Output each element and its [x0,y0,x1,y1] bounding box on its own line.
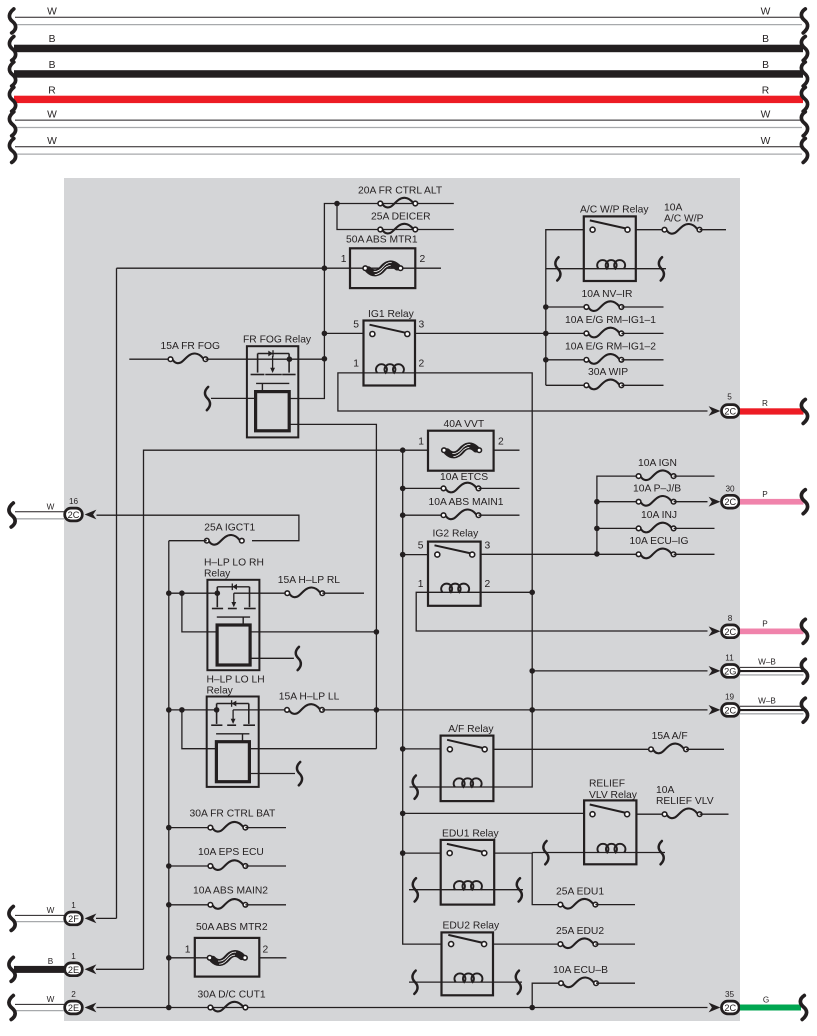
wire: IG2 pin1 to connector 8 [416,592,707,631]
svg-text:W: W [761,110,771,121]
wire: branch to 25A DEICER row [337,204,454,230]
junction [400,850,406,856]
wire break symbol [9,36,15,60]
svg-text:5: 5 [353,320,359,331]
connector 1 2E (left, B wire) [9,952,144,981]
wire break symbol [801,138,807,162]
svg-text:2C: 2C [724,497,736,507]
svg-text:1: 1 [418,436,424,447]
svg-text:19: 19 [725,693,735,702]
wire: EDU1 switch out to 25A EDU1 fuse [494,853,560,905]
relay FR FOG (solid state) [243,334,312,437]
svg-text:1: 1 [71,901,76,910]
wire: IG2 pin2 to bus x532 [481,591,533,593]
svg-text:B: B [49,60,56,71]
wire: FR FOG lower terminal to bus x376 [289,424,376,748]
wire break symbol [801,698,807,722]
svg-text:50A ABS MTR2: 50A ABS MTR2 [196,922,268,933]
wire W (top 1) [9,7,807,33]
wire: EDU2 switch out to 25A EDU2 fuse [493,943,560,945]
wire break symbol [659,257,664,280]
wire break symbol [801,9,807,33]
svg-text:RELIEF: RELIEF [589,779,625,790]
wire break symbol [801,490,807,514]
junction [166,590,172,596]
wire: RH coil right to bus x376 [250,631,376,633]
svg-text:2C: 2C [724,1003,736,1013]
wire break symbol [9,62,15,86]
svg-text:W: W [47,995,55,1004]
svg-text:2C: 2C [724,705,736,715]
svg-text:B: B [762,60,769,71]
junction [179,590,185,596]
wire break symbol [801,87,807,111]
wire: RELIEF coil left with break [532,852,584,854]
svg-text:FR FOG Relay: FR FOG Relay [243,334,312,345]
svg-text:2C: 2C [724,627,736,637]
wire: IG1 pin1 loop to connector 5 [338,373,708,411]
wire: bus x182 seg2 to LH coil [182,710,217,749]
svg-text:10A E/G RM–IG1–1: 10A E/G RM–IG1–1 [565,315,656,326]
wire: RELIEF coil right stub with break [636,852,665,854]
svg-text:50A ABS MTR1: 50A ABS MTR1 [346,234,418,245]
svg-text:2: 2 [485,579,491,590]
wire break symbol [9,9,15,33]
svg-text:B: B [48,957,54,966]
junction [215,590,221,596]
fuse 10A INJ [594,510,714,532]
wire: IGN fuse group bus x597 [597,476,639,554]
fuse 15A A/F [649,731,724,753]
wire break symbol [801,619,807,643]
svg-text:EDU1 Relay: EDU1 Relay [442,828,500,839]
wire: LL fuse to connector 19 [322,709,708,711]
wire: A/C coil left with break [546,268,584,270]
connector 8 2C (right, P wire) [709,614,808,643]
wire break symbol [801,399,807,423]
fuse 15A FR FOG [129,341,220,363]
wire break symbol [801,62,807,86]
fuse 10A E/G RM-IG1-1 [543,315,664,337]
fuse 10A RELIEF VLV [636,785,728,818]
wire B (top 3) [9,60,807,86]
fuse 30A D/C CUT1 [198,989,266,1011]
junction [400,512,406,518]
fuse 15A H-LP LL [279,692,340,714]
fuse 25A EDU1 [556,886,635,908]
wire: H-LP LH output to fuse [233,709,287,711]
junction [374,707,380,713]
svg-text:2E: 2E [68,1003,79,1013]
fuse 30A WIP [546,367,664,389]
svg-text:IG2 Relay: IG2 Relay [433,529,480,540]
wire break symbol [9,996,15,1020]
svg-text:1: 1 [185,945,191,956]
wire break symbol [412,971,417,994]
svg-text:EDU2 Relay: EDU2 Relay [443,921,501,932]
node: bus402 top [400,447,406,453]
fuse 10A EPS ECU [166,847,286,870]
fuse 10A ECU-B [532,965,635,1007]
junction [594,526,600,532]
svg-text:10A ECU–IG: 10A ECU–IG [630,536,689,547]
svg-text:1: 1 [341,254,347,265]
svg-text:15A FR FOG: 15A FR FOG [161,341,221,352]
wire break symbol [9,503,15,527]
junction [529,668,535,674]
fuse 10A ABS MAIN2 [166,885,286,908]
svg-text:A/C W/P: A/C W/P [664,213,704,224]
svg-text:10A P–J/B: 10A P–J/B [633,484,681,495]
wire: LH coil right to bus x376 corner [249,748,376,750]
wire break symbol [659,841,664,864]
connector 16 2C (left, W wire) [9,497,96,527]
junction [543,331,549,337]
wire: IG1 pin5 feed [324,332,363,334]
junction [529,590,535,596]
svg-text:2: 2 [498,436,504,447]
svg-text:G: G [763,995,769,1004]
svg-text:15A H–LP RL: 15A H–LP RL [278,575,340,586]
wire B (top 2) [9,34,807,60]
wire: EDU1 coil right stub with break [494,889,523,891]
svg-text:10A INJ: 10A INJ [641,510,677,521]
svg-text:2C: 2C [724,407,736,417]
junction [287,356,293,362]
fuse 10A IGN [636,458,714,480]
node: 20A/25A branch junction [334,201,340,207]
wire break symbol [296,647,301,670]
wire W (top 6) [9,136,807,162]
wire break symbol [9,112,15,136]
svg-text:35: 35 [725,990,735,999]
wire: bus x117 from MTR1 down to connector 2F [116,268,118,918]
svg-text:8: 8 [728,614,733,623]
svg-text:10A EPS ECU: 10A EPS ECU [198,847,264,858]
connector 11 2G (right, W-B wire) [709,654,808,684]
relay IG1 [353,309,424,386]
fuse 10A P-J/B [594,484,707,506]
svg-text:IG1 Relay: IG1 Relay [368,309,415,320]
svg-text:15A A/F: 15A A/F [652,731,688,742]
relay H-LP LO RH (solid state) [204,558,264,671]
fuse 20A FR CTRL ALT [378,198,418,208]
wire break symbol [9,906,15,930]
relay H-LP LO LH (solid state) [207,674,265,787]
wire: 40A VVT feed row and bus x143 [144,450,429,969]
fuse 50A ABS MTR1 [341,234,426,288]
svg-text:2C: 2C [68,510,80,520]
svg-text:10A IGN: 10A IGN [638,458,677,469]
wire: bus x169 [168,541,170,1008]
junction [400,746,406,752]
junction [400,486,406,492]
svg-text:1: 1 [418,579,424,590]
wire break symbol [801,659,807,683]
svg-text:11: 11 [725,654,734,663]
svg-text:2G: 2G [724,666,736,676]
svg-text:30: 30 [725,484,735,493]
svg-text:5: 5 [418,540,424,551]
wire W (top 5) [9,110,807,136]
svg-text:R: R [48,86,55,97]
wire break symbol [517,878,522,901]
svg-text:W–B: W–B [758,697,776,706]
wire: H-LP RH input row [169,592,218,594]
junction [166,902,172,908]
wire break symbol [555,257,560,280]
wire: H-LP LH input row [169,709,217,711]
svg-text:2F: 2F [68,914,79,924]
wire break symbol [801,112,807,136]
fuse 10A E/G RM-IG1-2 [543,342,664,364]
svg-text:10A NV–IR: 10A NV–IR [582,289,633,300]
fuse 15A H-LP RL [278,575,364,597]
junction [543,357,549,363]
svg-text:10A: 10A [656,785,674,796]
fuse 10A ABS MAIN1 [400,497,520,519]
svg-text:P: P [762,490,768,499]
fuse 25A IGCT1 [169,523,256,545]
junction [322,356,328,362]
svg-text:H–LP LO LH: H–LP LO LH [207,674,265,685]
wire: 50A ABS MTR1 row [117,267,442,269]
wire break symbol [9,87,15,111]
wire: EDU2 coil left stub with break [409,981,442,983]
wire: IG1 pin2 to bus x532 [415,373,532,787]
connector 5 2C (right, R wire) [709,393,808,424]
svg-text:10A ABS MAIN1: 10A ABS MAIN1 [429,497,504,508]
fuse 10A ECU-IG [630,536,715,558]
wire: RH lower terminal stub with break [250,657,294,659]
wire: IG2 pin5 feed [403,554,428,556]
svg-text:R: R [762,399,768,408]
relay IG2 [418,529,491,606]
wire: bottom bus row [97,1007,708,1009]
relay A/C W/P [580,205,649,281]
svg-text:2: 2 [419,358,425,369]
svg-text:2: 2 [263,945,269,956]
svg-text:10A E/G RM–IG1–2: 10A E/G RM–IG1–2 [565,342,656,353]
wire break symbol [9,957,15,981]
svg-text:H–LP LO RH: H–LP LO RH [204,558,264,569]
svg-text:Relay: Relay [204,569,231,580]
junction [166,1005,172,1011]
fuse 25A EDU2 [556,926,635,948]
svg-text:30A D/C CUT1: 30A D/C CUT1 [198,989,266,1000]
wire: connector 11 row [532,670,707,672]
top harness section [9,7,807,163]
svg-text:30A FR CTRL BAT: 30A FR CTRL BAT [190,809,277,820]
svg-text:15A H–LP LL: 15A H–LP LL [279,692,340,703]
svg-text:3: 3 [485,540,491,551]
svg-text:W: W [47,906,55,915]
wire break symbol [205,387,210,410]
wire break symbol [297,762,302,785]
svg-text:40A VVT: 40A VVT [444,419,485,430]
svg-text:30A WIP: 30A WIP [588,367,628,378]
wire: EDU1 input from bus x402 [403,852,441,854]
wire: A/C bus x546 [546,230,584,386]
junction [166,707,172,713]
wire break symbol [413,776,418,799]
junction [166,955,172,961]
svg-text:5: 5 [727,393,732,402]
junction [166,863,172,869]
svg-text:25A DEICER: 25A DEICER [371,211,431,222]
svg-text:3: 3 [419,320,425,331]
svg-text:25A EDU1: 25A EDU1 [556,886,604,897]
fuse 40A VVT [418,419,519,471]
connector 2 2E (left, W wire) [9,990,96,1019]
connector 35 2C (right, G wire) [709,990,807,1019]
svg-text:10A ABS MAIN2: 10A ABS MAIN2 [193,885,268,896]
junction [214,707,220,713]
wire break symbol [516,971,521,994]
connector 1 2F (left, W wire) [9,901,117,930]
fuse 10A ETCS [400,472,520,493]
svg-text:1: 1 [71,952,76,961]
junction [543,304,549,310]
junction [179,707,185,713]
wire break symbol [9,138,15,162]
wire R (top 4) [9,86,807,112]
svg-text:VLV Relay: VLV Relay [589,790,638,801]
svg-text:P: P [762,619,768,628]
wire: connector 16 row [97,515,299,541]
wire: A/F switch out to fuse [493,748,651,750]
svg-text:25A EDU2: 25A EDU2 [556,926,604,937]
svg-text:W: W [761,136,771,147]
svg-text:20A FR CTRL ALT: 20A FR CTRL ALT [358,185,443,196]
svg-text:2E: 2E [68,965,79,975]
svg-text:RELIEF VLV: RELIEF VLV [656,796,714,807]
svg-text:W: W [47,502,55,511]
junction [400,552,406,558]
fuse 10A NV-IR [543,289,664,311]
relay EDU1 [441,828,500,904]
wire: bus x402 [403,450,442,944]
connector 30 2C (right, P wire) [709,484,808,513]
fuse 50A ABS MTR2 [166,922,286,977]
fuse 25A DEICER [378,224,418,234]
svg-text:A/F Relay: A/F Relay [448,724,494,735]
svg-text:10A: 10A [664,202,682,213]
svg-text:2: 2 [420,254,426,265]
wire: FR FOG input row [206,358,325,360]
relay EDU2 [442,921,501,996]
junction [322,331,328,337]
wire: FR FOG coil left stub [211,397,256,399]
junction [374,629,380,635]
svg-text:A/C W/P Relay: A/C W/P Relay [580,205,649,216]
wire: H-LP RH output to fuse [234,592,287,594]
svg-text:W: W [47,7,57,18]
svg-text:W: W [761,7,771,18]
wire: A/F coil left stub with break [410,786,441,788]
svg-text:W: W [47,136,57,147]
wire: EDU2 coil right stub with break [493,981,522,983]
wire break symbol [543,841,548,864]
wire: A/F input from bus x402 [403,748,441,750]
svg-text:1: 1 [353,358,359,369]
wire: bus from 50A ABS MTR1 to 20A row corner [289,204,454,399]
svg-text:B: B [762,34,769,45]
junction [166,825,172,831]
svg-text:B: B [49,34,56,45]
wire: RELIEF input from bus x402 [403,812,584,814]
junction [594,551,600,557]
relay RELIEF VLV [584,779,638,865]
svg-text:25A IGCT1: 25A IGCT1 [204,523,255,534]
wire: IG1 pin3 to A/C bus [415,332,546,334]
wire: bus x182 seg1 to RH coil [182,593,217,632]
junction [594,499,600,505]
svg-text:10A ETCS: 10A ETCS [440,472,488,483]
wire: LH lower terminal stub with break [249,773,295,775]
svg-text:10A ECU–B: 10A ECU–B [553,965,608,976]
node: bus324 at MTR1 row [322,265,328,271]
svg-text:Relay: Relay [207,686,234,697]
svg-text:16: 16 [69,497,79,506]
svg-text:2: 2 [71,990,76,999]
wire: EDU1 coil left stub with break [409,889,441,891]
wire: A/C coil right with break [636,268,666,270]
wire break symbol [801,36,807,60]
wire: A/C switch out to fuse [636,229,665,231]
wire break symbol [800,996,806,1020]
svg-text:W: W [47,110,57,121]
relay block panel [64,178,740,1021]
junction [529,1005,535,1011]
relay A/F [441,724,495,801]
svg-text:W–B: W–B [758,658,776,667]
fuse 10A A/C W/P [662,202,726,233]
junction [400,811,406,817]
junction [529,707,535,713]
svg-text:R: R [762,86,769,97]
wire: IG2 pin3 out to ECU-IG row [481,553,639,555]
wire break symbol [413,878,418,901]
connector 19 2C (right, W-B wire) [709,693,808,723]
fuse 30A FR CTRL BAT [166,809,286,832]
